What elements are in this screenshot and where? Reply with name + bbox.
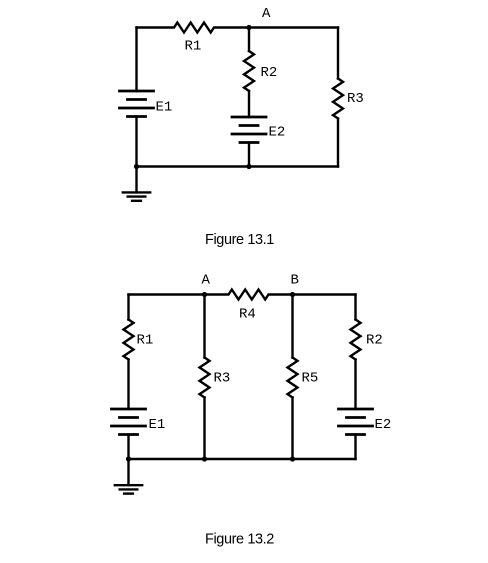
svg-text:Figure 13.2: Figure 13.2 [205, 532, 274, 548]
svg-text:E1: E1 [149, 417, 166, 433]
svg-text:R2: R2 [366, 333, 383, 349]
svg-text:A: A [262, 6, 271, 22]
svg-text:R2: R2 [261, 65, 278, 81]
svg-text:E1: E1 [156, 100, 173, 116]
svg-text:R1: R1 [185, 39, 202, 55]
svg-text:E2: E2 [375, 417, 392, 433]
svg-text:R3: R3 [347, 91, 364, 107]
svg-text:A: A [202, 273, 211, 289]
svg-text:R1: R1 [137, 333, 154, 349]
svg-text:B: B [291, 273, 299, 289]
svg-text:E2: E2 [269, 125, 286, 141]
svg-text:R5: R5 [302, 371, 319, 387]
svg-text:R3: R3 [214, 371, 231, 387]
svg-text:R4: R4 [239, 307, 256, 323]
svg-text:Figure 13.1: Figure 13.1 [205, 232, 274, 248]
